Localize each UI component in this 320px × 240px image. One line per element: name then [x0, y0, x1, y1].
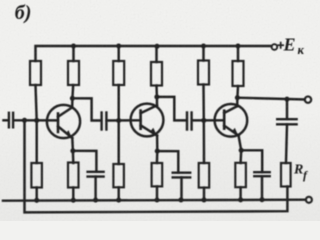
- wire Q2 collector: [155, 86, 158, 106]
- junction dots on ground rail: [34, 197, 264, 203]
- node Q1 collector junction: [70, 96, 75, 101]
- wire C3 to Q3 base: [192, 119, 224, 122]
- wire coupling stage1 to C2: [72, 98, 101, 120]
- wire R4b to ground: [117, 187, 119, 200]
- ground rail: [3, 200, 306, 201]
- node stage1 base bias junction: [34, 118, 39, 123]
- wire Ce3 to ground: [261, 176, 263, 200]
- wire output node to Cout: [286, 99, 288, 119]
- resistor Rf (feedback): [281, 163, 291, 187]
- resistor Re3 (stage3 emitter): [235, 163, 246, 187]
- resistor Rc3 (stage3 collector): [233, 61, 244, 86]
- capacitor Ce3 (stage3 bypass): [254, 172, 269, 176]
- resistor Re2 (stage2 emitter): [152, 163, 163, 186]
- wire emitter3 to bypass cap: [241, 150, 262, 172]
- wire Q1 emitter: [72, 138, 73, 163]
- resistor R1 top (stage1 upper bias): [30, 61, 41, 85]
- wire R2b to ground: [35, 188, 37, 201]
- resistor R5 top (stage3 upper bias): [198, 61, 209, 85]
- wire rail to R5: [202, 46, 204, 61]
- node stage2 base bias junction: [116, 118, 121, 123]
- capacitor C3 (coupling 2-3): [187, 113, 192, 130]
- wire coupling stage2 to C3: [157, 97, 187, 121]
- node Q1 emitter junction: [70, 148, 75, 153]
- label +Ek: [283, 35, 305, 57]
- resistor R4 bottom (stage2 lower bias): [113, 164, 124, 187]
- wire R6b to ground: [203, 188, 205, 201]
- wire rail to R3: [117, 46, 119, 61]
- resistor Rc1 (stage1 collector): [68, 61, 79, 85]
- wire rail to Rc1: [72, 46, 74, 61]
- terminal +Ek: [272, 44, 278, 50]
- wire Q1 collector: [72, 85, 73, 108]
- transistor Q1: [47, 105, 80, 138]
- capacitor C output: [277, 119, 296, 124]
- node input/feedback junction: [22, 118, 27, 123]
- top power rail: [36, 46, 272, 61]
- wire Ce1 to ground: [94, 177, 96, 201]
- wire Re3 to ground: [239, 187, 241, 200]
- resistor R6 bottom (stage3 lower bias): [199, 163, 210, 188]
- wire stage3 bias vertical: [202, 85, 205, 164]
- node Q2 emitter junction: [155, 149, 160, 154]
- capacitor C2 (coupling 1-2): [102, 113, 107, 130]
- wire C2 to Q2 base: [107, 119, 141, 122]
- wire Cout to Rf: [286, 124, 287, 163]
- wire Q3 collector: [236, 86, 239, 106]
- capacitor C input: [9, 113, 13, 128]
- wire stage2 bias vertical: [117, 85, 119, 164]
- label b): [15, 2, 32, 24]
- node Q2 collector junction: [154, 94, 159, 99]
- junction dots on top rail: [71, 43, 241, 48]
- wire rail to Rc3: [237, 46, 239, 61]
- wire Q2 emitter: [156, 136, 159, 163]
- node stage3 base bias junction: [201, 118, 206, 123]
- node output cap junction: [284, 97, 289, 102]
- capacitor Ce1 (stage1 bypass): [88, 172, 104, 177]
- input stub wire: [4, 119, 9, 121]
- terminal output bottom: [306, 197, 312, 203]
- wire feedback loop: [25, 120, 288, 212]
- label Rf: [293, 163, 308, 183]
- node Q3 emitter junction: [239, 148, 244, 153]
- resistor Re1 (stage1 emitter): [68, 163, 79, 188]
- wire Ce2 to ground: [180, 177, 182, 200]
- wire Q3 collector to output terminal: [237, 98, 304, 100]
- node Q3 collector junction: [235, 95, 240, 100]
- resistor R3 top (stage2 upper bias): [113, 61, 124, 85]
- wire emitter1 to bypass cap: [73, 151, 97, 172]
- transistor Q3: [215, 104, 248, 137]
- wire stage1 bias vertical: [36, 85, 37, 163]
- terminal output top: [305, 96, 311, 102]
- transistor Q2: [131, 104, 164, 137]
- wire cap to Q1 base: [13, 119, 58, 122]
- wire Q3 emitter: [239, 136, 242, 163]
- resistor Rc2 (stage2 collector): [151, 62, 162, 86]
- capacitor Ce2 (stage2 bypass): [173, 173, 191, 178]
- wire Re2 to ground: [156, 186, 158, 200]
- wire rail to Rc2: [155, 46, 157, 62]
- resistor R2 bottom (stage1 lower bias): [31, 163, 42, 188]
- wire Re1 to ground: [72, 188, 74, 201]
- plus sign of +Ek: [278, 43, 283, 48]
- wire emitter2 to bypass cap: [157, 151, 178, 173]
